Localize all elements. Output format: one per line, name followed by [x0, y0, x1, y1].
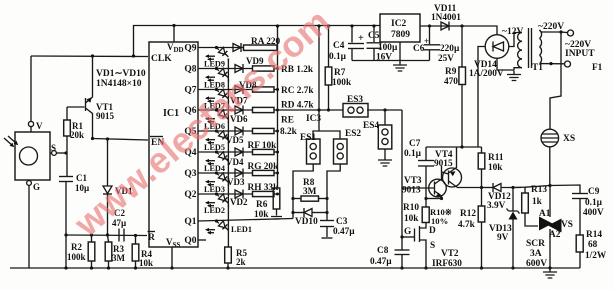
svg-text:R11: R11 — [488, 153, 504, 163]
LED LED7 — [217, 90, 219, 92]
svg-text:400V: 400V — [583, 208, 604, 218]
svg-text:R7: R7 — [334, 68, 346, 78]
wire Q5 row — [198, 130, 252, 132]
svg-text:XS: XS — [563, 134, 575, 144]
svg-text:LED4: LED4 — [204, 164, 225, 173]
LED LED3 — [217, 173, 219, 175]
transistor VT4 9015 — [443, 168, 462, 187]
svg-text:8.2k: 8.2k — [280, 127, 298, 137]
ground IC2 — [399, 42, 401, 61]
wire EN line — [93, 139, 149, 141]
resistor RB — [253, 66, 275, 71]
wire Q4 row — [198, 151, 252, 153]
wire secondary to terminals — [540, 30, 562, 32]
svg-text:Q7: Q7 — [184, 86, 196, 96]
svg-text:Q3: Q3 — [184, 169, 196, 179]
zener VD13 9V — [511, 186, 514, 189]
diode VD10 — [291, 211, 294, 214]
wire Q2 row — [198, 193, 252, 195]
capacitor C5 100u + — [372, 24, 375, 27]
resistor R1 20k — [66, 107, 68, 120]
wire live down to lamp — [550, 32, 561, 129]
wire ES1 ES2 feeds — [317, 24, 320, 27]
LED LED6 — [217, 110, 219, 112]
wire LED cathode bus — [227, 59, 229, 248]
svg-text:R13: R13 — [531, 185, 547, 195]
svg-text:0.47µ: 0.47µ — [370, 257, 392, 267]
svg-text:LED2: LED2 — [204, 206, 225, 215]
svg-text:10%: 10% — [431, 216, 448, 226]
diode VD4 — [235, 148, 243, 156]
svg-text:S: S — [51, 143, 56, 153]
svg-text:4.7k: 4.7k — [458, 220, 476, 230]
svg-text:SCR: SCR — [526, 239, 545, 249]
svg-text:RE: RE — [281, 116, 294, 126]
wire secondary bottom to terminal — [540, 63, 565, 65]
svg-text:0.1µ: 0.1µ — [585, 198, 603, 208]
svg-text:Q1: Q1 — [184, 217, 196, 227]
socket ES4 — [383, 108, 386, 111]
svg-text:9013: 9013 — [402, 186, 421, 196]
svg-text:RD 4.7k: RD 4.7k — [281, 101, 314, 111]
terminal ~220V INPUT — [565, 61, 571, 67]
capacitor C2 47u — [118, 229, 120, 242]
svg-text:+: + — [424, 36, 429, 46]
svg-text:LED9: LED9 — [204, 60, 225, 69]
LED LED2 — [217, 194, 219, 196]
svg-text:A1: A1 — [539, 209, 551, 219]
wire ES1 bottom — [293, 164, 313, 219]
wire Q0 stub — [198, 239, 206, 241]
svg-text:VD5: VD5 — [226, 135, 244, 145]
terminal V — [28, 121, 33, 126]
wire Q9 row — [198, 47, 243, 49]
ground main — [543, 268, 557, 278]
wire top +9V rail — [134, 26, 381, 57]
resistor R8 3M — [291, 197, 294, 200]
terminal ~220V top — [568, 30, 574, 36]
svg-text:3M: 3M — [112, 253, 126, 263]
svg-text:9015: 9015 — [96, 111, 115, 121]
wire Vss to ground rail — [171, 247, 173, 268]
svg-text:~12V: ~12V — [502, 27, 523, 37]
svg-text:Q2: Q2 — [184, 190, 196, 200]
resistor R7 100k — [327, 24, 330, 27]
svg-text:9015: 9015 — [434, 159, 453, 169]
svg-text:D: D — [429, 226, 436, 236]
wire Vdd stub — [173, 26, 175, 43]
wire VT4 collector to zener row — [462, 187, 482, 189]
svg-text:RC 2.7k: RC 2.7k — [281, 86, 314, 96]
wire CLK line — [31, 55, 148, 58]
svg-text:RF 10k: RF 10k — [248, 141, 278, 151]
svg-text:1N4001: 1N4001 — [431, 13, 461, 23]
resistor R11 10k — [481, 147, 483, 153]
capacitor C1 — [59, 176, 73, 178]
svg-text:C9: C9 — [588, 187, 600, 197]
diode VD5 — [235, 127, 243, 135]
capacitor C8 0.47u — [401, 237, 403, 250]
resistor R3 3M — [105, 242, 112, 261]
resistor RE 8.2k — [253, 128, 275, 133]
svg-text:C5: C5 — [368, 31, 380, 41]
wire Q7 row — [198, 89, 252, 91]
capacitor C6 220u 25V — [428, 24, 431, 27]
svg-text:25V: 25V — [438, 54, 454, 64]
svg-text:ES3: ES3 — [347, 95, 363, 105]
regulator IC2 7809 — [380, 14, 420, 42]
svg-text:10µ: 10µ — [75, 183, 90, 193]
resistor R2 100k — [91, 235, 93, 242]
ground below ES4 — [384, 149, 386, 156]
diode VD7 — [235, 86, 243, 94]
light arrows — [4, 136, 17, 146]
svg-text:VS: VS — [561, 220, 573, 230]
svg-text:0.47µ: 0.47µ — [333, 227, 355, 237]
terminal S — [52, 151, 57, 156]
wire IC3 trigger row — [278, 109, 344, 111]
diode VD11 1N4001 — [441, 22, 449, 30]
socket ES2 — [334, 139, 348, 164]
diode VD3 — [235, 169, 243, 177]
photocell G — [15, 132, 50, 180]
svg-text:V: V — [36, 121, 43, 131]
svg-text:G: G — [404, 227, 411, 237]
svg-text:ES4: ES4 — [363, 121, 379, 131]
diode VD8 — [235, 65, 243, 73]
resistor R6 10k — [273, 188, 280, 209]
capacitor C9 0.1u 400V — [550, 185, 580, 193]
resistor RD — [253, 107, 275, 112]
node Vdd rail junction — [172, 24, 175, 27]
transistor VT3 9013 — [429, 179, 447, 197]
svg-text:C8: C8 — [377, 246, 389, 256]
resistor RF — [253, 149, 275, 154]
resistor R12 4.7k — [481, 188, 483, 207]
diode VD2 — [235, 190, 243, 198]
svg-text:Q8: Q8 — [184, 65, 196, 75]
resistor R14 68 1/2W — [576, 235, 583, 252]
svg-text:VD10: VD10 — [295, 217, 318, 227]
wire S to C1 node — [56, 152, 66, 154]
svg-text:LED3: LED3 — [204, 185, 225, 194]
svg-text:10k: 10k — [404, 214, 419, 224]
rectifier VD14 — [485, 35, 509, 59]
svg-text:F1: F1 — [592, 63, 603, 73]
svg-text:R9: R9 — [445, 67, 457, 77]
resistor R4 10k — [135, 236, 137, 245]
wire zener row to R13 — [513, 186, 550, 188]
wire Q3 row — [198, 172, 252, 174]
svg-text:C7: C7 — [409, 139, 421, 149]
LED LED1 — [217, 221, 219, 223]
svg-text:T1: T1 — [532, 63, 543, 73]
svg-text:3M: 3M — [303, 187, 317, 197]
svg-text:10k: 10k — [254, 210, 269, 220]
svg-text:VT2: VT2 — [441, 249, 459, 259]
svg-text:RG 20k: RG 20k — [248, 162, 280, 172]
svg-text:VT3: VT3 — [404, 176, 422, 186]
resistor R5 2k — [225, 247, 232, 263]
node C7/VT3e/R10 — [424, 197, 427, 200]
wire 9V feed row — [426, 146, 482, 148]
wire staircase to gate — [401, 110, 403, 237]
LED LED9 — [217, 48, 219, 50]
svg-text:ES1: ES1 — [300, 133, 316, 143]
wire R net — [66, 234, 147, 237]
LED LED8 — [217, 69, 219, 71]
triac VS SCR — [548, 184, 551, 187]
LED LED4 — [217, 152, 219, 154]
svg-text:3.9V: 3.9V — [487, 201, 506, 211]
svg-text:IC2: IC2 — [391, 19, 407, 29]
wire Q6 row — [198, 109, 252, 111]
svg-text:100k: 100k — [332, 78, 352, 88]
svg-text:20k: 20k — [70, 130, 84, 140]
svg-text:R2: R2 — [71, 242, 82, 252]
photo sensor V terminal wire — [30, 56, 32, 122]
resistor R13 1k — [524, 187, 526, 193]
svg-text:VD1∼VD10: VD1∼VD10 — [96, 69, 146, 79]
svg-text:~220V: ~220V — [538, 22, 564, 32]
capacitor C4 0.1u — [350, 24, 353, 27]
svg-text:C3: C3 — [336, 217, 348, 227]
svg-text:R6: R6 — [256, 200, 268, 210]
socket ES1 — [307, 139, 321, 164]
wire G down to bottom rail — [28, 185, 30, 268]
svg-text:2k: 2k — [236, 257, 246, 267]
svg-text:VD4: VD4 — [226, 157, 244, 167]
lamp XS — [541, 129, 559, 147]
svg-text:LED1: LED1 — [231, 225, 252, 234]
svg-text:S: S — [430, 241, 435, 251]
wire RA to rail via bus top — [277, 26, 279, 188]
svg-text:R12: R12 — [460, 209, 476, 219]
svg-text:3A: 3A — [530, 249, 542, 259]
wire bottom rail — [10, 267, 580, 269]
svg-text:C1: C1 — [76, 173, 87, 183]
svg-text:220µ: 220µ — [440, 44, 460, 54]
svg-text:0.1µ: 0.1µ — [329, 52, 347, 62]
svg-text:100µ: 100µ — [378, 43, 398, 53]
resistor R9 470 — [460, 24, 463, 27]
svg-text:C4: C4 — [333, 41, 345, 51]
svg-text:1k: 1k — [532, 197, 543, 207]
svg-text:10k: 10k — [488, 163, 503, 173]
wire Q8 row — [198, 68, 252, 70]
svg-text:Q9: Q9 — [184, 44, 196, 54]
svg-text:R8: R8 — [303, 178, 315, 188]
svg-text:470: 470 — [444, 77, 458, 87]
svg-text:G: G — [33, 182, 40, 192]
svg-text:7809: 7809 — [391, 30, 410, 40]
svg-text:R: R — [148, 233, 155, 243]
diode VD9 — [233, 44, 241, 52]
svg-text:CLK: CLK — [151, 54, 172, 64]
svg-text:1N4148×10: 1N4148×10 — [96, 79, 142, 89]
diode VD12 3.9V — [482, 187, 494, 189]
svg-text:9V: 9V — [497, 233, 509, 243]
svg-text:VD3: VD3 — [227, 177, 245, 187]
svg-text:A2: A2 — [549, 230, 561, 240]
svg-text:R10: R10 — [403, 203, 419, 213]
svg-text:C6: C6 — [413, 44, 425, 54]
wire ES2 bottom — [327, 164, 340, 199]
svg-text:ES2: ES2 — [345, 129, 361, 139]
resistor RG — [253, 170, 275, 175]
resistor RC — [253, 87, 275, 92]
svg-text:100k: 100k — [67, 252, 86, 262]
wire Q1 row to comparator net — [198, 219, 293, 222]
capacitor C7 0.1u — [425, 147, 427, 160]
svg-text:R14: R14 — [586, 230, 602, 240]
socket ES3 — [343, 104, 368, 118]
transistor VT1 — [67, 106, 85, 108]
transistor VT2 IRF630 MOSFET — [420, 223, 426, 229]
svg-text:+: + — [358, 33, 364, 44]
svg-text:VD2: VD2 — [230, 197, 248, 207]
svg-text:0.1µ: 0.1µ — [404, 149, 422, 159]
svg-text:1A/200V: 1A/200V — [469, 69, 504, 79]
op-amp IC1 CD4017 body — [149, 42, 198, 247]
resistor RA 220 — [244, 45, 278, 50]
transformer T1 — [518, 33, 522, 42]
LED LED5 — [217, 131, 219, 133]
diode VD1 — [107, 139, 109, 186]
terminal G — [27, 181, 32, 186]
resistor R10 10k — [425, 199, 427, 208]
svg-text:INPUT: INPUT — [565, 49, 595, 59]
svg-text:10k: 10k — [139, 258, 153, 268]
resistor RH — [253, 191, 275, 196]
diode VD6 — [235, 106, 243, 114]
capacitor C3 0.47u — [326, 199, 328, 221]
svg-text:Q0: Q0 — [184, 236, 196, 246]
svg-text:68: 68 — [588, 240, 598, 250]
svg-text:1/2W: 1/2W — [585, 251, 607, 261]
